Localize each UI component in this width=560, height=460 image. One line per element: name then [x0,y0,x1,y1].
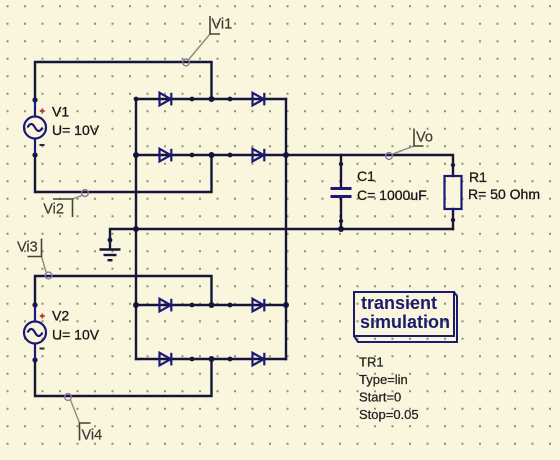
svg-text:C1: C1 [357,168,375,184]
wire right column [285,99,287,359]
V2 plus mark [40,314,45,319]
svg-text:simulation: simulation [360,312,450,332]
voltage source V1 [24,100,46,155]
wire R1 bottom lead [452,209,454,229]
svg-text:Vi4: Vi4 [82,428,103,444]
svg-text:Vi3: Vi3 [17,240,38,256]
wire ground mid rail [110,229,453,249]
wire row1 bridge top [136,98,286,100]
svg-text:C= 1000uF: C= 1000uF [357,187,427,203]
wire V1 bottom to row2 via Vi2 [35,155,212,192]
svg-text:Type=lin: Type=lin [359,372,408,387]
wire V2 top to row3 via Vi3 [35,276,212,305]
wire V1 top to Vi1 corner [35,62,212,100]
svg-text:V1: V1 [52,104,69,120]
wire C1 top lead [340,155,342,187]
wire output node Vo [286,155,453,176]
transient simulation block TR1 [354,292,457,342]
svg-text:Vi2: Vi2 [43,202,64,218]
diode D3 row2 left [160,149,172,162]
voltage source V2 [24,305,46,360]
wire V2 bottom to row4 via Vi4 [35,359,212,396]
diode D6 row3 right [253,299,265,312]
svg-text:R= 50 Ohm: R= 50 Ohm [468,186,540,202]
svg-text:R1: R1 [469,169,487,185]
svg-text:V2: V2 [52,308,69,324]
diode D4 row2 right [253,149,265,162]
node label Vi1 [183,16,233,66]
diode D2 row1 right [253,93,265,106]
V1 plus mark [40,109,45,114]
V2 minus mark [40,348,45,350]
wire left column [135,99,137,359]
ground [100,250,121,261]
svg-text:Vi1: Vi1 [212,17,233,33]
resistor R1 [445,176,462,209]
svg-text:U= 10V: U= 10V [52,122,100,138]
node label Vi3 [17,239,52,279]
svg-text:TR1: TR1 [359,355,384,370]
svg-text:Stop=0.05: Stop=0.05 [359,407,419,422]
diode D7 row4 left [160,353,172,366]
wire C1 bottom lead [340,199,342,230]
svg-text:transient: transient [361,293,437,313]
node label Vo [386,129,433,160]
svg-text:U= 10V: U= 10V [52,327,100,343]
capacitor C1 [331,189,352,197]
node label Vi2 [43,190,88,218]
wire row2 [136,154,286,156]
node label Vi4 [65,394,103,444]
diode D5 row3 left [160,299,172,312]
svg-text:Start=0: Start=0 [359,390,401,405]
wire row4 [136,358,286,360]
diode D1 row1 left [160,93,172,106]
wire row3 [136,304,286,306]
svg-text:Vo: Vo [416,130,433,146]
diode D8 row4 right [253,353,265,366]
V1 minus mark [40,144,45,146]
